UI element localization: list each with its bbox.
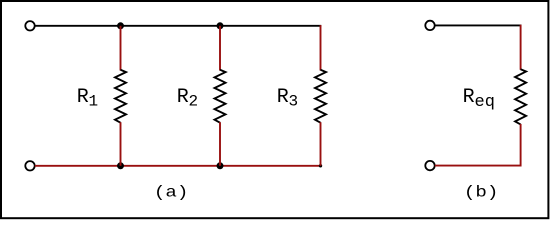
wire R2 bottom lead xyxy=(219,122,221,166)
node junction top R2 xyxy=(217,22,224,29)
wire R2 top lead xyxy=(219,26,221,71)
wire R1 top lead xyxy=(120,26,122,71)
svg-text:R: R xyxy=(177,86,189,109)
svg-text:3: 3 xyxy=(289,92,299,110)
svg-text:(a): (a) xyxy=(154,183,189,201)
resistor R3 xyxy=(315,70,326,123)
wire Req top lead xyxy=(520,25,522,70)
terminal top-left (b) xyxy=(425,21,434,30)
terminal bottom-left (a) xyxy=(25,161,34,170)
svg-text:eq: eq xyxy=(475,93,495,112)
wire bottom bus (a) xyxy=(35,165,322,167)
svg-text:(b): (b) xyxy=(464,183,499,201)
svg-text:R: R xyxy=(463,86,475,109)
svg-text:2: 2 xyxy=(189,92,199,110)
node junction top R1 xyxy=(117,22,124,29)
resistor R1 xyxy=(115,70,126,123)
wire bottom (b) xyxy=(435,165,522,167)
svg-text:R: R xyxy=(77,86,89,109)
resistor R2 xyxy=(215,70,226,123)
node corner bottom R3 xyxy=(319,164,322,167)
wire R1 bottom lead xyxy=(120,122,122,166)
node junction bottom R1 xyxy=(117,162,124,169)
svg-text:1: 1 xyxy=(89,92,99,110)
node junction bottom R2 xyxy=(217,162,224,169)
wire Req bottom lead xyxy=(520,124,522,167)
wire top (b) xyxy=(435,24,522,26)
wire R3 bottom lead xyxy=(320,122,322,166)
wire R3 top lead xyxy=(320,25,322,70)
terminal bottom-left (b) xyxy=(425,161,434,170)
resistor Req xyxy=(515,69,526,124)
terminal top-left (a) xyxy=(25,21,34,30)
svg-text:R: R xyxy=(277,86,289,109)
wire top bus (a) xyxy=(35,25,322,27)
